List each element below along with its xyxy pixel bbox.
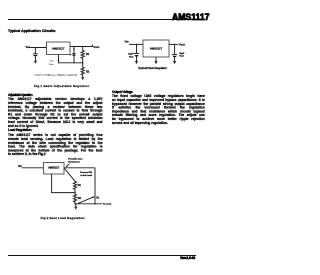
capacitor C2 [172,54,177,56]
svg-text:VIN: VIN [26,45,30,49]
logo AMS1117 [172,12,236,22]
wire below C1 [136,56,138,61]
wire drop to C1 [136,44,138,53]
node adj junction 2 [82,62,84,64]
box U2 AMS1117 [143,40,169,57]
node out junction 2 [82,46,84,48]
ground [34,61,37,64]
node out junction [174,44,176,46]
svg-text:V OUT = V REF (1 + R2/R1) + I: V OUT = V REF (1 + R2/R1) + I ADJ R2 [34,73,77,77]
wire adj path [52,174,75,193]
ground C1 [135,61,138,64]
wire below cap [34,56,36,61]
vref arrow [73,47,75,49]
vref plates [72,53,76,55]
node adj junction 1 [73,62,75,64]
wire input [129,43,143,45]
svg-text:22µF: 22µF [179,53,185,55]
ground pin [154,61,157,64]
terminal tick [92,45,94,47]
header rule [8,19,198,21]
svg-text:R2: R2 [78,197,82,200]
resistor R2 [73,193,76,204]
svg-text:To Load: To Load [103,204,112,206]
svg-text:Parasitic Line: Parasitic Line [68,158,83,161]
wire gnd pin [155,57,157,61]
svg-text:RL: RL [96,196,100,199]
footer rule [8,255,196,256]
wire below C2 [174,57,176,61]
box U3 AMS1117 [44,163,65,175]
ground arrow [75,204,77,207]
resistor R1 [81,47,84,63]
wire output [169,43,178,45]
op box U1 AMS1117 [47,42,71,55]
svg-text:10µF: 10µF [128,54,134,56]
svg-text:R1: R1 [78,184,82,187]
svg-text:Fig.1 Basic Adjustable Regulat: Fig.1 Basic Adjustable Regulator [34,84,90,88]
wire kelvin diag [78,197,94,204]
footer text blob [179,256,195,260]
svg-text:at the Load: at the Load [80,174,92,177]
node R1 R2 junction [74,192,76,194]
svg-text:VIN: VIN [125,39,129,43]
wire load rail [94,168,96,204]
svg-text:VOUT: VOUT [93,45,100,49]
wire adj pin [59,55,83,63]
svg-text:IADJ: IADJ [50,60,54,63]
leader arrow [66,164,69,167]
svg-text:VOUT: VOUT [179,43,186,47]
node input junction [136,44,138,46]
right column: heading [112,90,162,94]
left paragraph 1 [8,97,103,128]
svg-text:VREF: VREF [69,55,74,57]
svg-text:AMS1117: AMS1117 [150,47,163,51]
wire diag R1 [64,168,75,182]
node bottom junction [74,203,76,205]
node input junction [35,47,37,49]
capacitor C1 [134,52,139,54]
wire cap drop [34,48,36,54]
resistor R1 [73,181,76,192]
left column: Load Regulation heading [8,128,58,132]
capacitor C1 [33,53,38,55]
left column: Adjustable Operation heading [8,93,58,97]
left paragraph 2 [8,133,103,156]
wire output [64,167,95,169]
svg-text:Resistance: Resistance [68,161,80,164]
wire output [70,46,93,48]
ground R2 [81,77,84,80]
ground C2 [173,61,176,64]
wire input [22,167,44,169]
node out junction 1 [73,46,75,48]
wire drop to C2 [174,44,176,54]
svg-text:Fig.2 Best Load Regulation: Fig.2 Best Load Regulation [41,216,85,220]
svg-text:R2: R2 [86,71,90,74]
svg-text:VIN: VIN [18,165,22,168]
wire vref branch [73,47,75,63]
wire input [30,47,47,49]
right paragraph [112,94,205,125]
svg-text:Typical Fixed Regulator: Typical Fixed Regulator [138,66,168,70]
svg-text:R1: R1 [86,53,90,56]
adj arrow [58,60,60,62]
node rail bottom [94,203,96,205]
svg-text:50µA: 50µA [49,63,54,66]
wire bottom [75,203,102,205]
svg-text:AMS1117: AMS1117 [52,47,65,51]
heading: Typical Application Circuits [8,29,58,33]
svg-text:Tant: Tant [129,56,134,59]
svg-text:Tant: Tant [179,55,184,58]
svg-text:AMS1117: AMS1117 [48,166,60,170]
resistor R2 [81,63,84,77]
svg-text:Connect R2: Connect R2 [80,171,93,174]
